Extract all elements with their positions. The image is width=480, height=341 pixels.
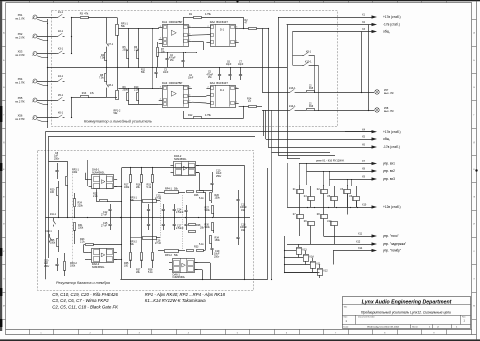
svg-text:2.54nF: 2.54nF xyxy=(176,211,184,214)
svg-text:Document Number: Document Number xyxy=(358,316,375,319)
svg-text:7.5k: 7.5k xyxy=(100,57,105,60)
svg-text:150k: 150k xyxy=(215,197,221,200)
svg-text:R12: R12 xyxy=(188,114,193,117)
svg-text:150k: 150k xyxy=(215,239,221,242)
svg-text:4.75k: 4.75k xyxy=(205,13,212,16)
svg-text:NJM4560L: NJM4560L xyxy=(92,265,105,269)
svg-text:Ж: Ж xyxy=(3,196,5,198)
svg-text:100: 100 xyxy=(50,191,55,194)
svg-text:R15: R15 xyxy=(309,88,314,90)
svg-text:27 nF: 27 nF xyxy=(155,242,162,245)
svg-text:+12в (стаб.): +12в (стаб.) xyxy=(383,205,401,209)
svg-text:2.2k: 2.2k xyxy=(134,49,139,52)
svg-text:D-1: D-1 xyxy=(220,89,225,92)
svg-text:10pF: 10pF xyxy=(238,64,244,66)
svg-text:X12: X12 xyxy=(356,241,361,244)
svg-text:250v: 250v xyxy=(44,265,50,268)
svg-text:К13: К13 xyxy=(303,249,308,252)
svg-text:К5-1: К5-1 xyxy=(58,94,64,97)
svg-text:2: 2 xyxy=(208,87,209,89)
svg-text:М: М xyxy=(3,306,5,308)
svg-text:К10-1: К10-1 xyxy=(305,61,312,64)
svg-text:+17в (стаб.): +17в (стаб.) xyxy=(383,130,401,134)
svg-text:-17в (стаб.): -17в (стаб.) xyxy=(383,23,400,27)
svg-text:6: 6 xyxy=(236,87,237,89)
svg-text:К3-1: К3-1 xyxy=(58,47,64,50)
svg-text:7.5k: 7.5k xyxy=(99,77,104,80)
svg-text:DA3 OPA627BP: DA3 OPA627BP xyxy=(162,81,182,85)
svg-text:Х51: Х51 xyxy=(18,13,23,17)
svg-text:220k: 220k xyxy=(78,227,84,230)
svg-text:100k: 100k xyxy=(50,242,56,245)
svg-text:100k: 100k xyxy=(70,265,76,268)
svg-text:общ.: общ. xyxy=(383,30,390,34)
svg-text:C2, C5, C11, C18 - Black Gate: C2, C5, C11, C18 - Black Gate FK xyxy=(52,304,119,309)
svg-text:5.1k: 5.1k xyxy=(199,197,204,200)
svg-text:К12: К12 xyxy=(324,270,329,273)
svg-text:2: 2 xyxy=(208,26,209,28)
svg-text:Rev: Rev xyxy=(462,317,466,319)
svg-text:4: 4 xyxy=(189,94,190,96)
svg-text:NJM4560L: NJM4560L xyxy=(92,170,105,174)
svg-text:R13: R13 xyxy=(82,92,87,95)
svg-text:Х54: Х54 xyxy=(18,77,23,81)
svg-text:К9-1: К9-1 xyxy=(306,51,312,54)
svg-text:К2-1: К2-1 xyxy=(58,30,64,33)
svg-text:вх.2 ЛК: вх.2 ЛК xyxy=(15,36,25,40)
svg-text:Lynx Audio Engineering Departm: Lynx Audio Engineering Department xyxy=(362,299,452,305)
svg-text:100k: 100k xyxy=(124,186,130,189)
svg-text:Х53: Х53 xyxy=(18,50,23,54)
svg-text:250v: 250v xyxy=(54,157,60,160)
svg-text:Коммутатор и линейный усилител: Коммутатор и линейный усилитель xyxy=(84,119,152,124)
svg-text:10nF: 10nF xyxy=(163,72,169,74)
svg-text:2.54nF: 2.54nF xyxy=(176,227,184,230)
svg-text:К1-1: К1-1 xyxy=(58,11,64,14)
svg-text:4: 4 xyxy=(189,34,190,36)
svg-text:вх.3 ПК: вх.3 ПК xyxy=(15,117,25,121)
svg-text:упр. "тихо": упр. "тихо" xyxy=(383,234,399,238)
svg-text:100k: 100k xyxy=(72,171,78,174)
svg-text:Предварительный усилитель Lynx: Предварительный усилитель Lynx12. Сигнал… xyxy=(361,311,451,315)
svg-text:DA4 BUF634T: DA4 BUF634T xyxy=(210,81,229,85)
svg-text:Регулятор баланса и тембра: Регулятор баланса и тембра xyxy=(56,281,110,285)
svg-text:10nF: 10nF xyxy=(188,78,194,80)
svg-text:200k: 200k xyxy=(123,89,129,92)
svg-text:+17в (стаб.): +17в (стаб.) xyxy=(383,15,401,19)
svg-text:5.1k: 5.1k xyxy=(147,186,152,189)
svg-text:5.1k: 5.1k xyxy=(199,243,204,246)
svg-text:6: 6 xyxy=(189,87,190,89)
svg-text:220k: 220k xyxy=(78,204,84,207)
svg-text:К11-1: К11-1 xyxy=(50,213,57,216)
svg-text:К14: К14 xyxy=(310,256,315,259)
svg-text:3: 3 xyxy=(160,26,161,28)
svg-text:6: 6 xyxy=(189,26,190,28)
svg-text:27 nF: 27 nF xyxy=(101,225,108,228)
svg-text:27 nF: 27 nF xyxy=(101,214,108,217)
svg-text:общ.: общ. xyxy=(383,137,390,141)
svg-text:R3 47k: R3 47k xyxy=(80,13,89,16)
svg-text:Sheet: Sheet xyxy=(412,326,418,329)
svg-text:К7-1: К7-1 xyxy=(108,43,114,46)
svg-text:-17в (стаб.): -17в (стаб.) xyxy=(383,145,400,149)
svg-text:вх.3 ЛК: вх.3 ЛК xyxy=(15,53,25,57)
svg-text:М: М xyxy=(473,306,475,308)
svg-text:2.2k: 2.2k xyxy=(93,195,98,198)
svg-text:Х55: Х55 xyxy=(18,96,23,100)
svg-text:RP1 - Alps RK40; RP2 ...RP4 -: RP1 - Alps RK40; RP2 ...RP4 - Alps RK18 xyxy=(145,292,226,297)
svg-text:вх.1 ПК: вх.1 ПК xyxy=(15,81,25,85)
svg-text:упр. вх3: упр. вх3 xyxy=(383,177,395,181)
svg-text:К6-1: К6-1 xyxy=(58,111,64,114)
svg-text:200k: 200k xyxy=(123,49,129,52)
svg-text:упр. вх2: упр. вх2 xyxy=(383,169,395,173)
svg-text:NJM4560L: NJM4560L xyxy=(174,157,187,161)
svg-text:100: 100 xyxy=(124,265,129,268)
svg-text:DA2 BUF634T: DA2 BUF634T xyxy=(210,20,229,24)
svg-text:2: 2 xyxy=(160,38,161,40)
svg-text:1: 1 xyxy=(236,41,237,43)
svg-text:Date:: Date: xyxy=(344,326,350,329)
svg-text:10pF: 10pF xyxy=(226,64,232,66)
svg-text:27 nF: 27 nF xyxy=(155,197,162,200)
svg-text:вых. ПК: вых. ПК xyxy=(384,109,394,113)
svg-text:Х52: Х52 xyxy=(18,32,23,36)
svg-text:3: 3 xyxy=(160,87,161,89)
svg-text:упр. "задержка": упр. "задержка" xyxy=(383,242,406,246)
svg-text:C3, C4, C6, C7 - Wima FKP2: C3, C4, C6, C7 - Wima FKP2 xyxy=(52,298,109,303)
svg-text:RP4-1: RP4-1 xyxy=(165,188,172,191)
svg-text:NJM4560L: NJM4560L xyxy=(173,275,186,279)
svg-text:К1...К14 RY12W-K Takamisawa: К1...К14 RY12W-K Takamisawa xyxy=(145,298,206,303)
svg-text:R16: R16 xyxy=(309,106,314,108)
svg-text:К11: К11 xyxy=(317,263,322,266)
svg-text:2.2k: 2.2k xyxy=(134,89,139,92)
svg-text:X11: X11 xyxy=(358,233,363,236)
svg-text:910k: 910k xyxy=(205,209,211,212)
svg-text:упр. вх1: упр. вх1 xyxy=(383,162,395,166)
svg-text:К14-1: К14-1 xyxy=(289,105,296,108)
svg-text:5.1k: 5.1k xyxy=(148,271,153,274)
svg-text:вх.2 ПК: вх.2 ПК xyxy=(15,100,25,104)
svg-text:RP4-2: RP4-2 xyxy=(165,254,172,257)
svg-text:вх.1 ЛК: вх.1 ЛК xyxy=(15,17,25,21)
svg-text:DA1 OPA627BP: DA1 OPA627BP xyxy=(162,20,182,24)
svg-text:7: 7 xyxy=(189,101,190,103)
svg-text:910k: 910k xyxy=(205,226,211,229)
svg-text:7: 7 xyxy=(189,40,190,42)
svg-text:упр. "тембр": упр. "тембр" xyxy=(383,249,401,253)
svg-text:К4-1: К4-1 xyxy=(58,75,64,78)
svg-text:6: 6 xyxy=(236,27,237,29)
svg-text:D-1: D-1 xyxy=(220,28,225,31)
svg-text:Х56: Х56 xyxy=(18,114,23,118)
svg-text:4.75k: 4.75k xyxy=(205,114,212,117)
svg-text:К12-1: К12-1 xyxy=(46,230,53,233)
svg-text:2: 2 xyxy=(160,98,161,100)
svg-text:2.2k: 2.2k xyxy=(80,241,85,244)
svg-text:Wednesday, December 08, 2004: Wednesday, December 08, 2004 xyxy=(367,326,400,329)
svg-text:C9, C10, C19, C20 - Rifa PHE42: C9, C10, C19, C20 - Rifa PHE426 xyxy=(52,292,118,297)
svg-text:К13-1: К13-1 xyxy=(289,87,296,90)
svg-text:X10: X10 xyxy=(362,204,367,207)
svg-text:X14: X14 xyxy=(358,247,363,250)
svg-text:вых. ЛК: вых. ЛК xyxy=(384,91,394,95)
svg-text:Ж: Ж xyxy=(473,196,475,198)
svg-text:250v: 250v xyxy=(216,175,222,178)
svg-text:реле К1 - К16 RY12W-K: реле К1 - К16 RY12W-K xyxy=(316,158,345,162)
svg-text:К8-1: К8-1 xyxy=(108,84,114,87)
svg-text:1: 1 xyxy=(236,101,237,103)
svg-text:250v: 250v xyxy=(214,255,220,258)
svg-text:R33: R33 xyxy=(194,246,199,249)
